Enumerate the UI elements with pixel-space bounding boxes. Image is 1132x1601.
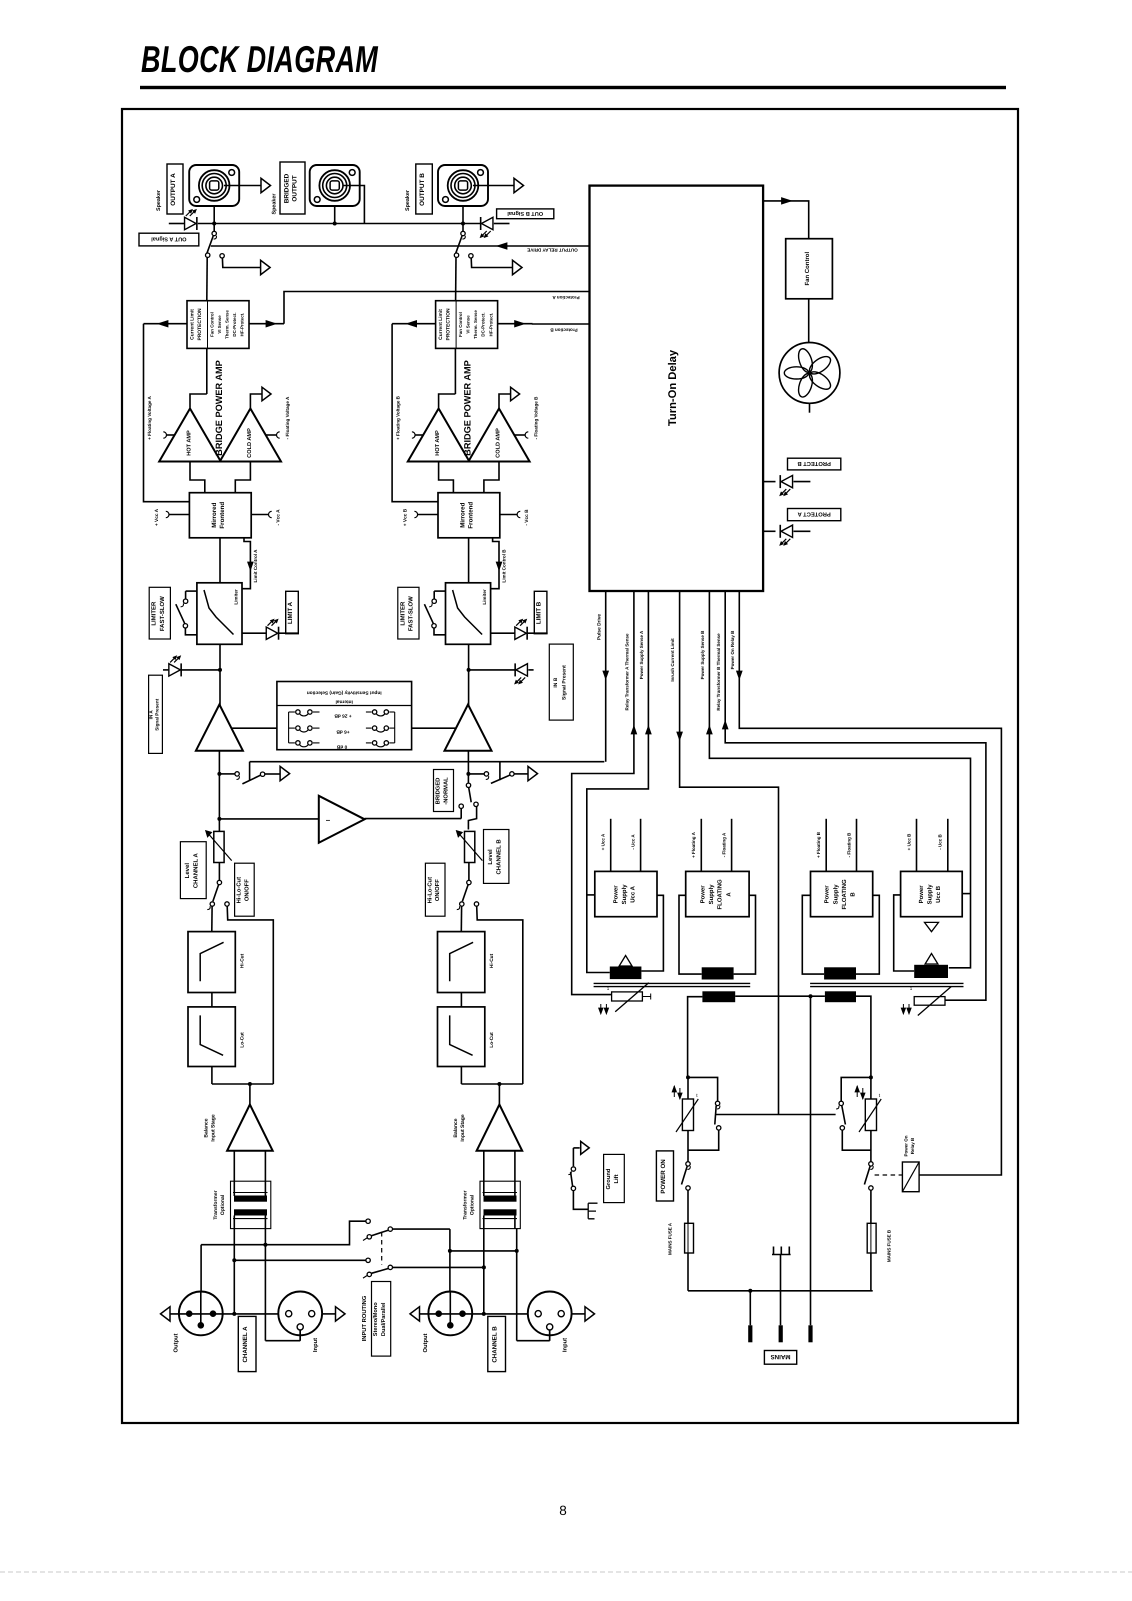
svg-text:Hi-Cut: Hi-Cut <box>489 953 495 968</box>
diagram frame <box>122 109 1018 1423</box>
svg-text:- Ucc B: - Ucc B <box>938 834 943 850</box>
svg-text:CHANNEL B: CHANNEL B <box>492 1326 499 1363</box>
enclosure floating B <box>802 895 824 974</box>
wire main vertical through protection B <box>454 348 456 394</box>
wire limiter to LED A <box>242 632 266 634</box>
svg-text:LIMIT B: LIMIT B <box>536 601 543 624</box>
junction in signal B <box>467 668 471 672</box>
junction node bus-A <box>212 222 216 226</box>
mains fuse B <box>870 1190 872 1223</box>
wire output B drop <box>449 1229 451 1292</box>
coil Ucc A <box>619 956 632 967</box>
svg-text:Frontend: Frontend <box>468 502 475 529</box>
balance input stage triangle B <box>477 1105 523 1151</box>
label Level CHANNEL B <box>484 830 509 884</box>
wire after limit LED A <box>279 632 299 634</box>
svg-text:VI Sense: VI Sense <box>466 315 471 334</box>
svg-text:HOT AMP: HOT AMP <box>435 430 441 456</box>
svg-text:COLD AMP: COLD AMP <box>247 428 253 458</box>
wire limit control B <box>491 538 499 589</box>
connector + Vcc A <box>169 514 190 516</box>
wires +Ucc A -Ucc A <box>610 819 612 872</box>
wire relay A NC to arrow <box>222 258 261 268</box>
arrow tape B <box>528 766 538 780</box>
coil Ucc B <box>925 954 938 965</box>
label OUTPUT B <box>416 164 433 214</box>
wire transformer B left lead down <box>483 1229 485 1314</box>
power supply floating A box <box>686 871 749 916</box>
svg-text:–: – <box>326 816 331 825</box>
filter bypass switch A <box>217 880 221 884</box>
wire limiter to input amp B <box>468 644 470 705</box>
label LIMIT A <box>286 591 299 633</box>
XLR output connector A <box>200 1292 202 1326</box>
svg-text:OUTPUT B: OUTPUT B <box>419 173 426 206</box>
routing gang dashed link <box>381 1232 383 1265</box>
svg-text:HF-Protect.: HF-Protect. <box>240 313 245 337</box>
mono summing amp <box>319 796 365 843</box>
wire relay transformer A thermal sense <box>572 591 634 995</box>
svg-text:Balance: Balance <box>204 1118 210 1137</box>
power on switch B <box>869 1162 873 1166</box>
connector + floating voltage A <box>166 434 175 436</box>
lo-cut filter box A <box>188 1007 235 1067</box>
svg-text:Speaker: Speaker <box>272 193 278 215</box>
relay switch B moving contact <box>454 253 458 257</box>
svg-text:Lift: Lift <box>613 1174 620 1183</box>
enclosure floating A <box>679 895 702 974</box>
thermistor B <box>870 1077 872 1099</box>
svg-text:Relay Transformer B Thermal Se: Relay Transformer B Thermal Sense <box>716 633 721 711</box>
svg-text:Ucc A: Ucc A <box>630 885 637 902</box>
wire relay B NC to arrow <box>471 258 512 268</box>
svg-text:Mirrored: Mirrored <box>460 502 467 527</box>
wire power on relay B <box>739 591 1001 1175</box>
junction node bus-B <box>461 222 465 226</box>
wire speakon B to arrow <box>473 185 514 187</box>
svg-text:0 dB: 0 dB <box>336 743 347 749</box>
wire center tap <box>810 996 812 1325</box>
wire speakon A down to relay <box>213 206 215 232</box>
input amp triangle A <box>196 705 243 751</box>
wire speakon B down to relay <box>462 206 464 232</box>
wire transformer B right lead down <box>516 1229 518 1341</box>
junction mono send A <box>217 817 221 821</box>
svg-text:- Ucc A: - Ucc A <box>630 834 635 850</box>
svg-text:Limiter: Limiter <box>482 589 487 605</box>
label IN A Signal Present <box>149 675 163 753</box>
svg-text:Level: Level <box>487 849 494 865</box>
wire to IN B LED <box>469 669 516 671</box>
svg-text:Level: Level <box>184 863 191 879</box>
svg-text:OUTPUT RELAY DRIVE: OUTPUT RELAY DRIVE <box>527 247 578 252</box>
wire relay transformer B thermal sense <box>725 591 986 1000</box>
label BRIDGED OUTPUT <box>280 162 305 214</box>
svg-text:- Vcc B: - Vcc B <box>524 509 530 526</box>
relay switch B contact <box>461 231 465 235</box>
svg-text:Power: Power <box>918 885 925 904</box>
svg-text:Internal: Internal <box>336 699 353 705</box>
svg-text:Balance: Balance <box>453 1118 459 1137</box>
svg-text:Hi-Lo-Cut: Hi-Lo-Cut <box>236 877 243 903</box>
power on switch A <box>686 1162 690 1166</box>
svg-text:+ 26 dB: + 26 dB <box>334 713 352 719</box>
label Level CHANNEL A <box>180 842 206 899</box>
enclosure Ucc A <box>587 894 595 896</box>
svg-text:Supply: Supply <box>832 884 839 905</box>
level pot A <box>214 831 224 862</box>
transformer optional A <box>231 1181 271 1228</box>
svg-text:Inrush Current Limit: Inrush Current Limit <box>670 638 675 682</box>
svg-text:+ Floating B: + Floating B <box>816 831 821 858</box>
lo-cut filter box B <box>438 1007 485 1067</box>
earth symbol <box>772 1247 791 1255</box>
svg-text:+ Floating Voltage B: + Floating Voltage B <box>396 395 401 440</box>
svg-text:Power Supply Sense B: Power Supply Sense B <box>700 630 705 680</box>
wire switch to hi-cut B <box>460 906 462 931</box>
arrow tape A <box>280 766 290 780</box>
label OUT A Signal <box>139 233 199 246</box>
HOT AMP triangle A <box>159 409 221 462</box>
svg-text:BRIDGE POWER AMP: BRIDGE POWER AMP <box>463 360 473 456</box>
limiter speed switch A <box>186 590 197 592</box>
svg-text:Input: Input <box>563 1338 569 1352</box>
dashed relay link <box>875 1174 903 1176</box>
connector - floating voltage A <box>265 434 277 436</box>
wire protection B right arrow <box>498 323 533 325</box>
svg-text:LIMIT A: LIMIT A <box>287 601 294 624</box>
mains selector bus <box>716 1114 836 1116</box>
routing switch 1 <box>366 1219 370 1223</box>
svg-text:BRIDGED: BRIDGED <box>284 173 291 203</box>
fuse thermal A <box>612 992 643 1001</box>
arrow input B <box>585 1307 595 1321</box>
svg-text:B: B <box>850 892 857 897</box>
speakon connector BRIDGED OUTPUT <box>310 165 360 206</box>
power on relay B box <box>902 1162 919 1192</box>
svg-text:+ Floating Voltage A: + Floating Voltage A <box>147 395 152 439</box>
wire protection A left arrow <box>144 323 188 325</box>
svg-text:+ Ucc B: + Ucc B <box>906 833 911 850</box>
mains pin E <box>779 1325 783 1342</box>
wire transformer A right lead down <box>264 1229 266 1341</box>
svg-text:MAINS FUSE A: MAINS FUSE A <box>668 1222 673 1255</box>
svg-text:Therm. Sense: Therm. Sense <box>225 310 230 339</box>
svg-text:- Floating Voltage B: - Floating Voltage B <box>534 396 539 439</box>
svg-text:Lo-Cut: Lo-Cut <box>489 1032 495 1048</box>
svg-text:Fan Control: Fan Control <box>458 312 463 337</box>
svg-text:- Floating Voltage A: - Floating Voltage A <box>285 396 290 439</box>
wire mono amp input <box>219 818 318 820</box>
arrow out A <box>261 178 271 192</box>
svg-text:Protection A: Protection A <box>552 295 580 300</box>
svg-text:Input Stage: Input Stage <box>211 1114 217 1141</box>
wire relay A to protection <box>206 257 208 300</box>
svg-text:+ Ucc A: + Ucc A <box>601 833 606 850</box>
svg-text:Limiter: Limiter <box>234 589 239 605</box>
svg-text:+6 dB: +6 dB <box>336 729 350 735</box>
wires +Floating B -Floating B <box>825 819 827 872</box>
svg-text:Limit Control B: Limit Control B <box>501 549 506 583</box>
svg-text:Relay Transformer A Thermal Se: Relay Transformer A Thermal Sense <box>625 633 630 710</box>
label PROTECT A <box>788 509 841 521</box>
svg-text:Input: Input <box>313 1338 319 1352</box>
svg-text:Current Limit: Current Limit <box>190 309 196 340</box>
wire output A drop <box>200 1245 202 1292</box>
svg-text:Power: Power <box>700 885 707 904</box>
hi-cut filter box A <box>188 932 235 993</box>
core A <box>594 982 751 984</box>
connector + floating voltage B <box>415 434 424 436</box>
wire cold amp to frontend A <box>235 462 250 493</box>
svg-text:Ground: Ground <box>605 1168 612 1189</box>
svg-text:Power: Power <box>824 885 831 904</box>
svg-text:BLOCK DIAGRAM: BLOCK DIAGRAM <box>141 38 378 80</box>
relay switch A NC contact <box>220 254 224 258</box>
XLR output connector B <box>449 1292 451 1326</box>
limiter box B <box>446 583 491 645</box>
wire transformer A left lead down <box>233 1229 235 1314</box>
power supply Ucc B box <box>901 871 963 916</box>
wire input A pin loop <box>265 1340 300 1342</box>
connector - floating voltage B <box>514 434 526 436</box>
wire to fan control <box>763 201 809 239</box>
svg-text:IN B: IN B <box>553 677 559 687</box>
svg-text:+ Vcc B: + Vcc B <box>403 508 409 526</box>
wire speakon A to arrow <box>224 185 261 187</box>
svg-text:Current Limit: Current Limit <box>438 309 444 340</box>
wire floating feedback B <box>392 324 438 502</box>
label Hi-Lo-Cut ON/OFF A <box>235 863 255 916</box>
COLD AMP triangle A <box>220 409 281 462</box>
wire protection A right arrow <box>249 323 284 325</box>
svg-text:Limit Control A: Limit Control A <box>253 549 258 583</box>
junction in signal A <box>218 668 222 672</box>
svg-text:Relay B: Relay B <box>910 1137 915 1154</box>
primary coil B <box>825 991 856 1002</box>
svg-text:VI Sense: VI Sense <box>217 315 222 334</box>
svg-text:- Vcc A: - Vcc A <box>276 509 282 526</box>
routing switch 2 <box>366 1258 370 1262</box>
wire routing bus2 <box>234 1259 366 1261</box>
bypass switch B <box>841 1077 871 1101</box>
svg-text:+ Vcc A: + Vcc A <box>154 508 160 526</box>
connector - Vcc A <box>251 514 269 516</box>
wire lo-cut to balance B <box>460 1067 462 1085</box>
wires +Floating A -Floating A <box>700 819 702 872</box>
current limit protection box A <box>187 301 249 349</box>
label LIMITER FAST-SLOW A <box>149 587 170 639</box>
label CHANNEL A <box>238 1316 256 1371</box>
polarity marker Ucc B <box>925 922 939 931</box>
svg-text:-NORMAL: -NORMAL <box>442 777 449 805</box>
input sensitivity selection box <box>277 682 412 750</box>
thermistor A <box>687 1077 689 1099</box>
svg-text:Stereo/Mono: Stereo/Mono <box>372 1302 379 1336</box>
svg-text:FLOATING: FLOATING <box>717 879 724 910</box>
wire frontend to limiter A <box>219 538 221 583</box>
wire fan control to fan <box>808 299 810 343</box>
svg-text:Power: Power <box>612 885 619 904</box>
wire xlr bus A <box>167 1313 279 1315</box>
fuse thermal B <box>914 997 945 1006</box>
current limit protection box B <box>436 301 498 349</box>
svg-text:HF-Protect.: HF-Protect. <box>488 313 493 337</box>
input amp triangle B <box>445 705 492 751</box>
HOT AMP triangle B <box>408 409 470 462</box>
svg-text:Pulse Drive: Pulse Drive <box>596 614 602 640</box>
wire floating feedback A <box>144 324 190 502</box>
wire input A down to level pot <box>218 751 220 832</box>
arrow relay A aux <box>261 260 271 274</box>
XLR input connector B <box>528 1292 572 1336</box>
wire input B pin loop <box>517 1340 550 1342</box>
LED OUT A signal present <box>185 217 197 229</box>
connector - Vcc B <box>500 514 518 516</box>
wire pot to filter switch B <box>468 863 470 881</box>
wire power supply sense B <box>709 591 970 968</box>
svg-text:Optional: Optional <box>220 1194 226 1215</box>
wire pulse drive <box>605 591 607 762</box>
label Stereo/Mono Dual/Parallel <box>372 1282 391 1357</box>
svg-text:Power On: Power On <box>903 1135 908 1156</box>
label BRIDGED-NORMAL <box>434 770 454 812</box>
svg-text:IN A: IN A <box>148 710 153 720</box>
svg-text:Signal Present: Signal Present <box>562 665 568 700</box>
svg-text:Protection B: Protection B <box>550 328 578 333</box>
svg-text:MAINS FUSE B: MAINS FUSE B <box>887 1229 892 1262</box>
svg-text:Therm. Sense: Therm. Sense <box>473 310 478 339</box>
mirrored frontend box B <box>438 493 500 538</box>
power supply Ucc A box <box>595 871 657 916</box>
wire main vertical through protection A <box>206 348 208 394</box>
tape switch B <box>466 772 470 776</box>
svg-text:Power On Relay B: Power On Relay B <box>730 630 735 670</box>
label POWER ON <box>656 1151 673 1201</box>
transformer optional B <box>480 1181 520 1228</box>
hi-cut filter box B <box>438 932 485 993</box>
mains bottom bus <box>688 1290 873 1292</box>
COLD AMP triangle B <box>468 409 529 462</box>
mirrored frontend box A <box>189 493 251 538</box>
bridged-normal switch <box>466 783 470 787</box>
svg-text:Signal Present: Signal Present <box>155 698 160 730</box>
limiter speed switch B <box>434 590 445 592</box>
label LIMITER FAST-SLOW B <box>398 587 419 639</box>
svg-text:Hi-Cut: Hi-Cut <box>240 953 246 968</box>
svg-text:BRIDGE POWER AMP: BRIDGE POWER AMP <box>214 360 224 456</box>
turn-on delay box <box>590 186 764 591</box>
wire OUTPUT RELAY DRIVE bus <box>211 245 590 247</box>
relay switch A moving contact <box>206 253 210 257</box>
svg-text:PROTECT B: PROTECT B <box>797 460 831 467</box>
svg-text:Output: Output <box>422 1333 429 1352</box>
wire limiter to input amp A <box>219 644 221 705</box>
svg-text:OUTPUT A: OUTPUT A <box>170 173 177 206</box>
wire balance outputs A <box>233 1151 235 1181</box>
svg-text:Fan Control: Fan Control <box>209 312 214 337</box>
tape switch A <box>219 773 235 775</box>
speakon connector OUTPUT B <box>438 165 488 206</box>
relay switch B lever <box>455 236 462 254</box>
svg-text:BRIDGED: BRIDGED <box>435 778 442 805</box>
svg-text:DC-Protect.: DC-Protect. <box>232 312 237 336</box>
LED OUT B signal present <box>481 217 493 229</box>
svg-text:Speaker: Speaker <box>405 189 411 211</box>
wire power supply sense A <box>587 591 649 973</box>
LED IN B signal present <box>516 664 528 676</box>
svg-text:Fan Control: Fan Control <box>804 252 811 286</box>
wire OUT A signal bus <box>169 223 184 225</box>
power supply floating B box <box>811 871 873 916</box>
speakon connector OUTPUT A <box>189 165 239 206</box>
svg-text:Turn-On Delay: Turn-On Delay <box>667 349 679 426</box>
junction primary A <box>686 1075 690 1079</box>
wires +Ucc B -Ucc B <box>916 819 918 872</box>
svg-text:Supply: Supply <box>708 884 715 905</box>
wire bypass B <box>477 906 523 1084</box>
enclosure Ucc B <box>894 895 915 971</box>
svg-text:Output: Output <box>173 1333 180 1352</box>
svg-text:+ Floating A: + Floating A <box>691 831 696 857</box>
filter bypass switch B <box>467 880 471 884</box>
svg-text:Optional: Optional <box>470 1194 476 1215</box>
svg-text:LIMITER: LIMITER <box>151 601 158 626</box>
svg-text:Dual/Parallel: Dual/Parallel <box>380 1302 387 1336</box>
svg-text:OUT B Signal: OUT B Signal <box>507 210 543 217</box>
svg-text:HOT AMP: HOT AMP <box>187 430 193 456</box>
junction tape out A <box>217 772 221 776</box>
svg-text:ON/OFF: ON/OFF <box>434 879 441 901</box>
wire after LED B <box>494 223 510 225</box>
svg-text:Supply: Supply <box>926 884 933 905</box>
wire bus B parallel <box>450 1250 517 1252</box>
coil floating B <box>824 967 856 979</box>
LED protect B <box>763 481 775 483</box>
fan <box>779 343 840 404</box>
svg-text:ON/OFF: ON/OFF <box>243 879 250 901</box>
fan control box <box>786 239 833 299</box>
sensitivity selector contacts <box>288 712 290 743</box>
arrow out B <box>514 178 524 192</box>
wire to IN A LED <box>181 669 220 671</box>
svg-text:DC-Protect.: DC-Protect. <box>481 312 486 336</box>
arrow relay B aux <box>513 260 523 274</box>
wire balance outputs B <box>483 1151 485 1181</box>
label PROTECT B <box>788 458 841 470</box>
svg-text:Hi-Lo-Cut: Hi-Lo-Cut <box>426 877 433 903</box>
primary coil A <box>702 991 735 1002</box>
mains pin L <box>749 1291 751 1326</box>
wire sensitivity box to input amp B <box>412 727 457 729</box>
label Ground Lift <box>604 1154 625 1202</box>
svg-text:Power Supply Sense A: Power Supply Sense A <box>639 630 644 679</box>
wire bridged output right-down <box>343 186 364 224</box>
svg-text:Ucc B: Ucc B <box>935 885 942 903</box>
svg-text:OUTPUT: OUTPUT <box>291 175 298 201</box>
svg-text:- Floating B: - Floating B <box>846 832 851 857</box>
svg-text:- Floating A: - Floating A <box>721 832 726 857</box>
connector + Vcc B <box>417 514 438 516</box>
wire mono amp out to bridged switch <box>365 818 462 820</box>
wire switch to hi-cut A <box>211 906 213 931</box>
arrow input A <box>336 1307 346 1321</box>
wire hot amp to frontend B <box>439 462 454 493</box>
label MAINS <box>764 1351 796 1365</box>
wire hi-cut to lo-cut A <box>211 993 213 1007</box>
ground lift switch <box>573 1147 579 1149</box>
svg-text:POWER ON: POWER ON <box>660 1159 667 1194</box>
